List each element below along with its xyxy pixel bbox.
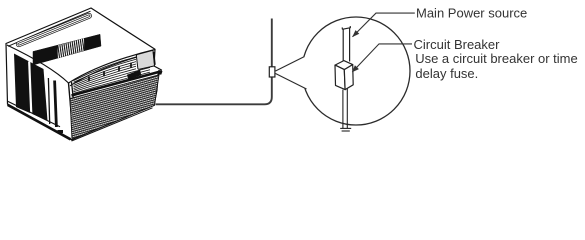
top slot (white ring) [19,16,89,44]
circuit breaker box top face [335,61,353,70]
conduit lower section [340,89,351,132]
top slot (white core) [19,16,89,44]
dark bar below louvers [72,72,160,96]
left face thin vertical line [48,78,49,124]
top vent hatched middle section [58,38,84,58]
dark bar right end cap [158,70,163,75]
top lid inner rim line [8,11,91,46]
circuit breaker box right face [344,65,353,90]
svg-text:Use a circuit breaker or time: Use a circuit breaker or time [415,51,578,66]
arrowhead at breaker box [352,65,359,72]
front face top edge rim line b [70,52,155,86]
callout circle [302,17,410,125]
louver vertical tick marks [89,63,131,82]
wedge lower line [276,74,307,90]
wedge erase triangle [276,56,307,90]
plug on cord [269,67,275,77]
front grille (hatched) [70,75,159,140]
svg-text:Circuit Breaker: Circuit Breaker [414,37,501,52]
arrowhead at conduit [352,30,359,37]
dark patch under control panel [127,70,141,80]
front-left corner edge (inner) [72,82,77,131]
base rim thick edge (left face) [8,105,71,140]
leader line to Circuit Breaker [352,44,412,72]
front louver slats (fan) [74,57,151,94]
left side face black panel [14,54,48,121]
wedge upper line [276,57,305,72]
air conditioner unit body (silhouette) [6,8,162,140]
top vent strip (black with hatched middle) [33,34,101,65]
conduit upper section [342,26,350,61]
base rim upper line (left face) [8,101,60,127]
control panel [136,51,154,70]
small label plate on base [58,130,64,133]
power cord [156,19,272,105]
left face wide vertical bar [55,81,57,128]
front-left corner edge (outer) [69,83,74,140]
top slot (inner ring) [19,16,89,44]
front face top edge rim line a [69,50,156,84]
svg-text:delay fuse.: delay fuse. [415,66,478,81]
svg-text:Main Power source: Main Power source [416,5,527,20]
control panel right side 3d edge [154,52,155,65]
top slot (outer capsule) [19,16,89,44]
left panel white stripe [29,62,31,115]
grille bottom secondary line [72,108,153,141]
circuit breaker box front face [335,65,345,90]
leader line to Main Power source [353,13,415,37]
left face top edge (to front corner) [7,45,69,83]
